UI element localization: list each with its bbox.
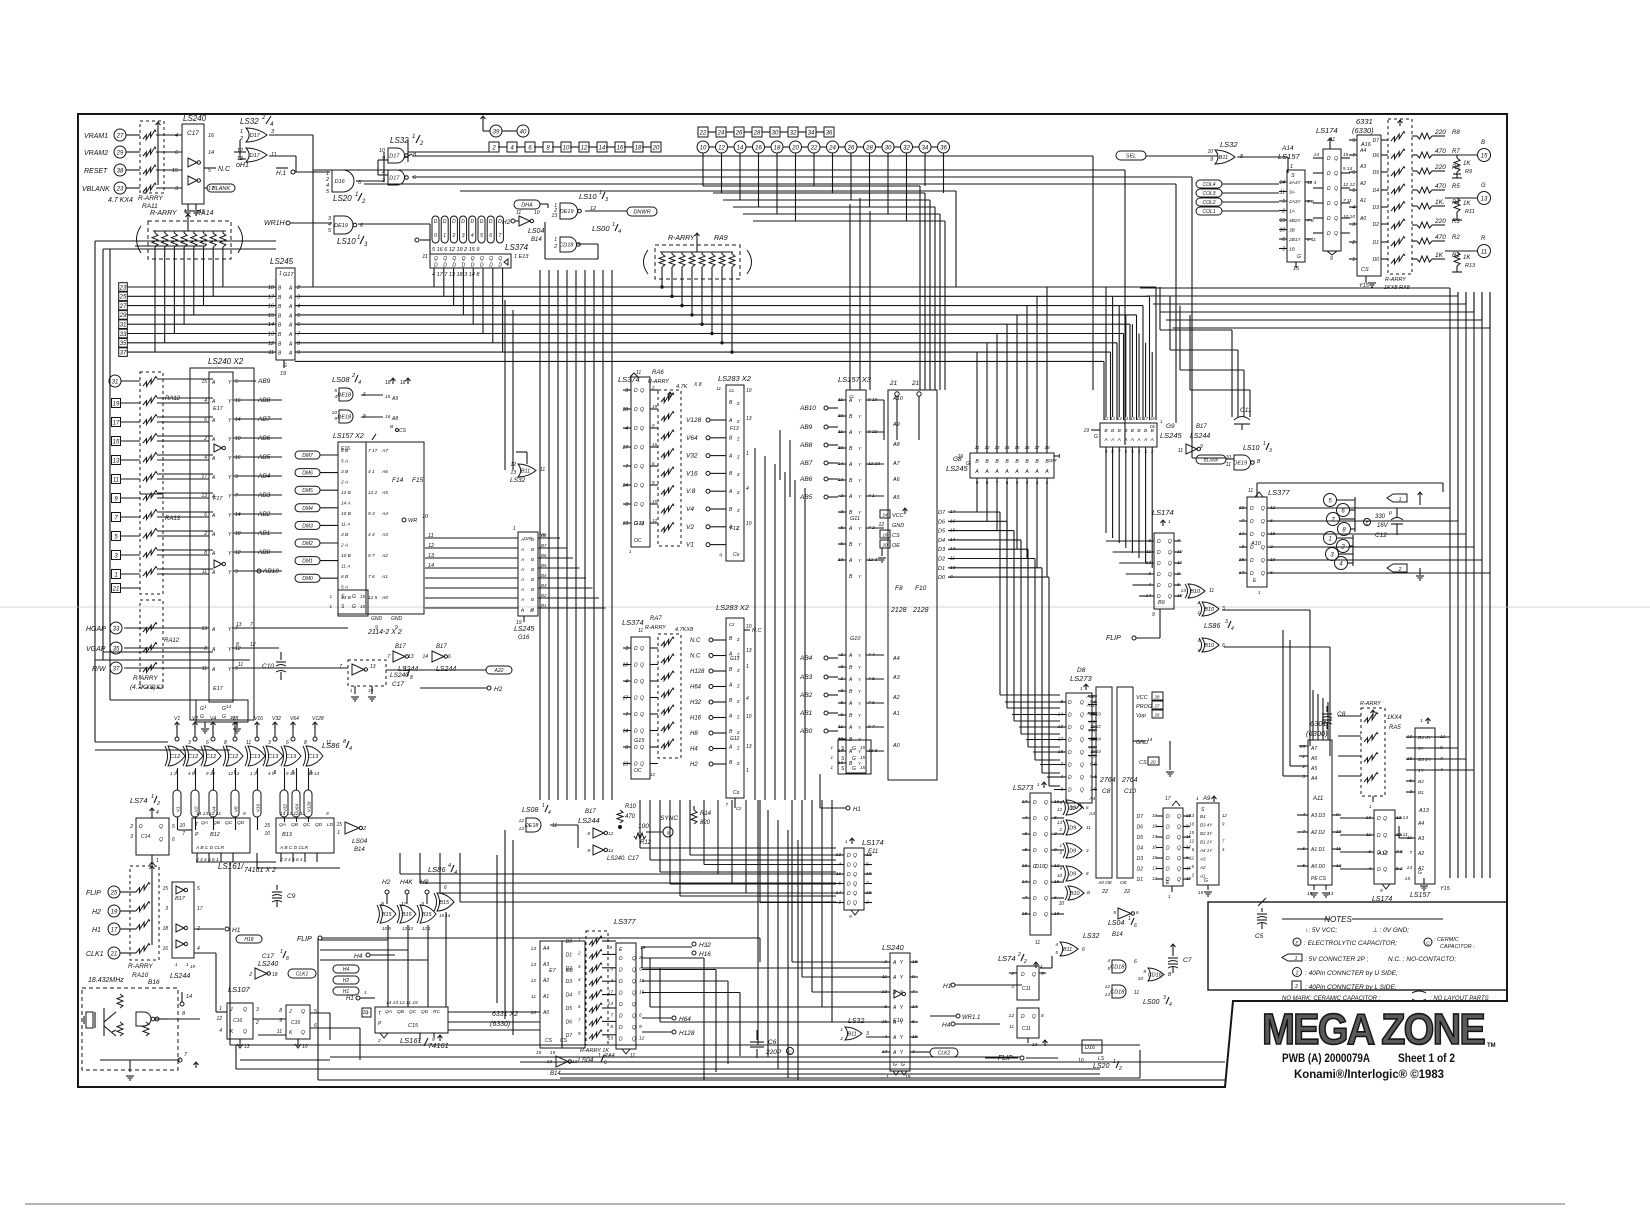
svg-text:A: A	[1024, 469, 1029, 475]
svg-text:8: 8	[610, 1024, 613, 1030]
svg-text:Σ: Σ	[736, 454, 740, 459]
wire 6301 tops	[1312, 690, 1314, 740]
svg-text:C: C	[1426, 941, 1430, 947]
svg-text:H4: H4	[354, 953, 363, 960]
svg-text:G: G	[1204, 878, 1208, 884]
wire G9 down	[1105, 456, 1107, 533]
svg-text:LS245: LS245	[514, 626, 534, 633]
svg-text:H2: H2	[494, 686, 503, 693]
svg-text:R9: R9	[1465, 169, 1472, 175]
svg-text:14 13 12 11: 14 13 12 11	[280, 811, 305, 817]
svg-text:V128: V128	[307, 801, 312, 812]
svg-text:Y: Y	[228, 456, 232, 462]
svg-text:12: 12	[250, 642, 256, 648]
svg-text:D: D	[139, 824, 143, 830]
svg-text:D: D	[1327, 186, 1331, 192]
svg-text:B: B	[278, 286, 282, 292]
svg-text:1K: 1K	[1463, 255, 1471, 261]
svg-text:CL: CL	[729, 388, 735, 393]
svg-text:B5: B5	[541, 563, 547, 568]
svg-text:A9: A9	[391, 396, 398, 402]
svg-text:D: D	[1166, 856, 1170, 862]
svg-text:9: 9	[1330, 256, 1333, 262]
svg-text:8: 8	[546, 145, 550, 151]
svg-text:Q: Q	[489, 256, 493, 262]
svg-text:11: 11	[540, 467, 545, 473]
svg-text:15: 15	[1198, 890, 1204, 896]
svg-text:A4: A4	[381, 511, 388, 517]
svg-text:14: 14	[1279, 180, 1285, 186]
wire b10 outputs right	[1222, 609, 1310, 611]
svg-text:D: D	[847, 853, 851, 859]
svg-text:Q: Q	[1080, 713, 1084, 719]
svg-text:A: A	[848, 398, 853, 404]
svg-text:13 B: 13 B	[341, 490, 352, 496]
svg-text:4: 4	[548, 810, 551, 816]
svg-text:2: 2	[1398, 567, 1402, 573]
gate LS04 E7 bottom	[556, 1056, 568, 1067]
svg-text:4: 4	[625, 426, 628, 432]
svg-text:R-ARRY: R-ARRY	[645, 625, 666, 631]
svg-text:DM7: DM7	[302, 453, 313, 459]
svg-text:B: B	[531, 587, 534, 592]
svg-text:FLIP: FLIP	[86, 890, 101, 897]
svg-text:19: 19	[1186, 876, 1191, 881]
svg-text:CS: CS	[545, 1038, 553, 1044]
svg-text:B8: B8	[541, 533, 547, 538]
gate LS32 1/2 D17 d	[388, 170, 405, 185]
svg-text:1: 1	[329, 604, 332, 609]
svg-text:Q: Q	[640, 646, 644, 652]
svg-text:7: 7	[625, 712, 628, 718]
svg-text:2: 2	[419, 141, 424, 147]
svg-text:7: 7	[725, 802, 728, 807]
svg-text:D: D	[619, 968, 623, 974]
svg-text:12: 12	[1057, 807, 1063, 812]
svg-text:D: D	[847, 901, 851, 907]
svg-text:5: 5	[1352, 188, 1355, 194]
wire mid verticals to bottom	[757, 800, 759, 1045]
wire G9 verticals up	[1105, 287, 1107, 417]
svg-text:7: 7	[182, 831, 185, 837]
svg-text:Q: Q	[1044, 912, 1048, 918]
svg-text:9: 9	[1054, 847, 1057, 853]
svg-text:14: 14	[235, 417, 241, 423]
svg-text:9: 9	[297, 350, 300, 356]
svg-text:D1: D1	[1373, 240, 1380, 246]
svg-text:35: 35	[120, 341, 127, 347]
svg-text:Σ: Σ	[736, 715, 740, 720]
svg-text:1A: 1A	[1289, 209, 1295, 215]
svg-text:1K: 1K	[1463, 201, 1471, 207]
svg-text:Y: Y	[858, 510, 862, 515]
svg-text:9: 9	[1222, 822, 1225, 827]
svg-text:3: 3	[235, 474, 238, 480]
svg-text:RA12: RA12	[164, 638, 180, 644]
svg-text:14: 14	[428, 563, 434, 569]
svg-text:Y: Y	[228, 570, 232, 576]
svg-text:10: 10	[746, 714, 752, 720]
svg-text:A: A	[892, 1005, 897, 1011]
svg-text:5: 5	[208, 168, 212, 174]
svg-text:A B C D CLR: A B C D CLR	[279, 845, 309, 851]
svg-text:B11: B11	[847, 1032, 856, 1038]
svg-text:V8: V8	[232, 716, 238, 722]
svg-text:20: 20	[1149, 760, 1156, 765]
svg-text:Y: Y	[858, 689, 862, 694]
svg-text:D: D	[634, 502, 638, 508]
IC counter B12	[192, 818, 250, 853]
svg-text:2 A: 2 A	[340, 543, 348, 549]
wire right verticals lower	[1449, 736, 1451, 738]
svg-text:D: D	[619, 979, 623, 985]
svg-text:31: 31	[112, 379, 119, 385]
svg-text:D: D	[1157, 561, 1161, 567]
capacitor C12 electrolytic	[1364, 519, 1371, 526]
svg-text:5: 5	[1055, 950, 1058, 956]
svg-text:Y: Y	[858, 414, 862, 419]
svg-text:15: 15	[385, 394, 391, 400]
svg-text:8: 8	[182, 1011, 186, 1017]
svg-text:1KX8 RA8: 1KX8 RA8	[1384, 285, 1411, 291]
net BLANK stadium right	[1196, 455, 1226, 464]
svg-text:R-ARRY: R-ARRY	[648, 379, 669, 385]
svg-text:B3 4Y: B3 4Y	[1200, 823, 1213, 828]
svg-text:5: 5	[328, 228, 332, 234]
svg-text:16: 16	[755, 145, 762, 151]
notes box	[1208, 902, 1507, 990]
svg-text:G13: G13	[730, 656, 740, 662]
svg-text:12: 12	[1009, 1013, 1015, 1019]
svg-text:1: 1	[1128, 916, 1131, 922]
svg-text:D: D	[619, 1014, 623, 1020]
resistor R9 1K	[1456, 155, 1458, 158]
svg-text:D17: D17	[389, 154, 400, 160]
wire e11 left inputs extra	[690, 854, 836, 856]
svg-text:OE: OE	[892, 543, 900, 549]
svg-text:A: A	[848, 725, 853, 731]
svg-text:11: 11	[246, 740, 251, 746]
svg-text:A2: A2	[892, 695, 900, 701]
connector square chain 22-36	[698, 127, 708, 137]
svg-text:G14: G14	[634, 521, 644, 527]
svg-text:Q: Q	[632, 968, 636, 974]
svg-text:A7: A7	[381, 448, 388, 454]
svg-text:B10: B10	[1190, 589, 1201, 595]
svg-text:LS161/: LS161/	[218, 862, 244, 871]
svg-text:19: 19	[280, 371, 286, 377]
svg-text:1: 1	[746, 664, 749, 670]
svg-text:Q: Q	[640, 762, 644, 768]
svg-text:LS00: LS00	[592, 224, 610, 233]
svg-text:1: 1	[840, 1027, 843, 1033]
svg-text:18: 18	[235, 436, 241, 442]
svg-text:B12: B12	[210, 832, 220, 838]
svg-text:D1: D1	[1137, 877, 1144, 883]
svg-text:3Y: 3Y	[1418, 746, 1425, 752]
svg-text:11: 11	[1086, 825, 1091, 830]
svg-text:G: G	[1094, 434, 1098, 440]
svg-text:H2: H2	[382, 879, 391, 886]
svg-text:Y: Y	[858, 446, 862, 451]
svg-text:6: 6	[1352, 170, 1355, 176]
svg-text:9: 9	[652, 480, 655, 485]
svg-text:5 16 6 12 19 2 15 9: 5 16 6 12 19 2 15 9	[432, 247, 479, 253]
svg-text:Q: Q	[632, 1037, 636, 1043]
svg-text:13: 13	[1189, 813, 1194, 818]
svg-text:2: 2	[577, 950, 581, 955]
svg-text:2128: 2128	[912, 607, 929, 614]
svg-text:COL4: COL4	[1202, 182, 1215, 188]
svg-text:18: 18	[774, 145, 781, 151]
svg-text:13: 13	[531, 946, 537, 952]
svg-text:2: 2	[839, 1036, 843, 1042]
svg-text:G: G	[901, 1062, 905, 1068]
svg-text:Y: Y	[900, 1035, 904, 1041]
svg-text:B: B	[849, 574, 853, 580]
svg-text:D: D	[1377, 867, 1381, 873]
svg-text:Q: Q	[632, 956, 636, 962]
svg-text:1: 1	[1258, 590, 1261, 595]
svg-text:B: B	[1087, 890, 1090, 895]
svg-text:GND: GND	[391, 616, 403, 622]
svg-text:C9: C9	[287, 893, 296, 900]
svg-text:Q: Q	[853, 872, 857, 878]
svg-text:19: 19	[368, 688, 374, 693]
svg-text:11 A: 11 A	[341, 564, 350, 570]
svg-text:Q: Q	[640, 712, 644, 718]
connector circle cluster 1-4	[1324, 532, 1337, 545]
svg-text:21: 21	[911, 380, 920, 387]
svg-text:15: 15	[360, 604, 366, 609]
svg-text:DE18: DE18	[525, 823, 540, 829]
svg-text:6: 6	[1082, 947, 1085, 953]
svg-text:A2: A2	[381, 553, 388, 559]
svg-text:A22: A22	[494, 668, 504, 674]
resistor array RA10	[130, 866, 159, 960]
svg-text:V1: V1	[174, 716, 180, 722]
svg-text:Σ: Σ	[736, 684, 740, 689]
svg-text:A1: A1	[892, 711, 900, 717]
svg-text:Cz: Cz	[729, 622, 735, 627]
svg-text:13: 13	[746, 648, 752, 654]
svg-text:H1: H1	[943, 983, 952, 990]
svg-text:D2: D2	[1137, 867, 1144, 873]
svg-text:R11: R11	[1465, 209, 1475, 215]
svg-text:5 13: 5 13	[1343, 166, 1353, 172]
svg-text:26: 26	[735, 130, 743, 136]
svg-text:A3: A3	[892, 675, 901, 681]
svg-text:B: B	[531, 567, 534, 572]
svg-text:Q: Q	[1334, 186, 1338, 192]
svg-text:QC: QC	[409, 1009, 417, 1015]
svg-text:Y: Y	[900, 1005, 904, 1011]
svg-text:Q: Q	[853, 891, 857, 897]
wire e10 left inputs extra	[642, 967, 890, 969]
svg-text:LS374: LS374	[505, 243, 529, 252]
svg-text:G: G	[1418, 870, 1422, 876]
svg-text:D: D	[1033, 832, 1037, 838]
svg-text:A: A	[892, 1035, 897, 1041]
svg-text:A: A	[288, 304, 293, 310]
svg-text:14: 14	[208, 150, 214, 156]
svg-text:LS32: LS32	[1220, 140, 1238, 149]
connector arrow 2	[1387, 564, 1407, 572]
svg-text:B: B	[729, 667, 733, 673]
svg-text:22: 22	[1101, 889, 1108, 895]
svg-text:A4: A4	[1359, 148, 1366, 154]
svg-text:P: P	[195, 832, 199, 838]
svg-text:A9: A9	[892, 422, 900, 428]
svg-text:CD18: CD18	[1148, 973, 1163, 979]
svg-text:2: 2	[1294, 984, 1298, 990]
svg-text:Vpp: Vpp	[1136, 713, 1146, 719]
node H1 e10	[951, 983, 955, 987]
svg-text:µ: µ	[1389, 510, 1392, 516]
svg-text:28: 28	[753, 130, 761, 136]
svg-text:Q: Q	[1168, 561, 1172, 567]
svg-text:A6: A6	[381, 469, 388, 475]
svg-text:13: 13	[608, 1036, 614, 1042]
svg-text:QD: QD	[421, 1009, 429, 1015]
svg-text:Y15: Y15	[1359, 283, 1370, 289]
svg-text:LD: LD	[327, 822, 334, 828]
svg-text:1: 1	[1168, 894, 1171, 899]
svg-text:Σ: Σ	[736, 730, 740, 735]
svg-text:14: 14	[186, 994, 192, 1000]
svg-text:A: A	[520, 557, 524, 562]
svg-text:Q: Q	[640, 696, 644, 702]
svg-text:14: 14	[1307, 891, 1313, 897]
svg-text:D: D	[1068, 700, 1072, 706]
svg-text:B3 2Y: B3 2Y	[1418, 757, 1432, 763]
svg-text:A5: A5	[892, 495, 901, 501]
svg-text:6 B: 6 B	[341, 574, 349, 580]
svg-text:D: D	[1021, 1014, 1025, 1020]
svg-text:13: 13	[408, 654, 414, 660]
svg-text:GND: GND	[371, 616, 383, 622]
wire long horizontal y191	[460, 190, 956, 192]
svg-text:A: A	[288, 332, 293, 338]
wire counters verticals	[196, 853, 198, 862]
svg-text:RA9: RA9	[714, 235, 728, 242]
svg-text:Σ: Σ	[736, 746, 740, 751]
svg-text:A2: A2	[1417, 851, 1424, 857]
svg-text:Q: Q	[443, 256, 447, 262]
svg-text:DM5: DM5	[302, 488, 313, 494]
wire E17 outputs right	[256, 399, 282, 401]
svg-text:D: D	[1166, 846, 1170, 852]
wire bus A main	[295, 286, 1156, 288]
svg-text:Y: Y	[900, 960, 904, 966]
wire ra5 links	[1338, 715, 1361, 717]
svg-text:Y: Y	[858, 558, 862, 563]
svg-text:1: 1	[219, 1006, 222, 1012]
wire 2114 to LS245 G16	[425, 537, 518, 539]
wire bottom rails extra	[255, 1044, 1140, 1046]
svg-text:A: A	[520, 547, 524, 552]
svg-text:A2 D2: A2 D2	[1310, 830, 1325, 836]
svg-text:5: 5	[172, 824, 175, 830]
svg-text:Y: Y	[228, 437, 232, 443]
svg-text:G17: G17	[283, 272, 294, 278]
svg-text:RA7: RA7	[650, 616, 662, 622]
svg-text:D: D	[1377, 816, 1381, 822]
svg-text:Q: Q	[1080, 788, 1084, 794]
svg-text:C13: C13	[268, 754, 279, 760]
svg-text:VGAP: VGAP	[86, 646, 106, 653]
svg-text:13: 13	[746, 744, 752, 750]
svg-text:9: 9	[1352, 138, 1355, 144]
svg-text:11: 11	[113, 477, 119, 483]
svg-text:29: 29	[119, 313, 127, 319]
svg-text:4: 4	[270, 122, 274, 128]
svg-text:A: A	[520, 587, 524, 592]
svg-text:D: D	[634, 729, 638, 735]
svg-text:12: 12	[1186, 845, 1191, 850]
connector circle 31	[109, 375, 121, 387]
svg-text:S: S	[1201, 807, 1205, 813]
svg-text:B14: B14	[1112, 932, 1123, 938]
svg-text:CS: CS	[1139, 760, 1147, 766]
svg-text:V64: V64	[290, 716, 299, 722]
svg-text:3: 3	[364, 242, 368, 248]
svg-text:6: 6	[1282, 237, 1285, 243]
svg-text:QA: QA	[279, 822, 286, 828]
wire C17 pin16 to OR gate	[135, 245, 204, 247]
svg-text:1B: 1B	[1289, 247, 1296, 253]
svg-text:A: A	[1034, 469, 1039, 475]
svg-text:3: 3	[1225, 619, 1228, 625]
svg-text:D1: D1	[938, 566, 945, 572]
svg-text:B16: B16	[148, 979, 160, 986]
IC LS157 Y13 A13	[1415, 728, 1435, 884]
svg-text:DE19: DE19	[334, 223, 348, 229]
svg-text:Y: Y	[228, 399, 232, 405]
svg-text:(4.7KX8)X2: (4.7KX8)X2	[130, 684, 164, 691]
svg-text:V32: V32	[686, 453, 698, 460]
svg-text:3: 3	[1011, 984, 1014, 990]
IC counter B13	[276, 818, 334, 853]
svg-text:V128: V128	[686, 417, 702, 424]
svg-text:11: 11	[238, 662, 243, 668]
svg-text:Σ: Σ	[736, 472, 740, 477]
svg-text:A13: A13	[1418, 808, 1430, 814]
svg-text:7: 7	[578, 1017, 581, 1022]
svg-text:Q: Q	[1168, 550, 1172, 556]
IC PROM E7 E8	[540, 941, 585, 1048]
svg-text:A0: A0	[892, 743, 901, 749]
svg-text:1: 1	[175, 962, 178, 967]
svg-text:13: 13	[531, 962, 537, 968]
svg-text:17: 17	[111, 927, 118, 933]
svg-text:Q: Q	[1080, 763, 1084, 769]
svg-text:Y: Y	[228, 475, 232, 481]
svg-text:5: 5	[235, 379, 238, 385]
svg-text:B: B	[985, 459, 989, 465]
svg-text:1 2: 1 2	[170, 771, 177, 776]
connector circle chain 10-36	[697, 141, 709, 153]
svg-text:4: 4	[197, 946, 200, 952]
svg-text:4 4: 4 4	[368, 532, 375, 538]
svg-text:A0 D0: A0 D0	[1310, 864, 1325, 870]
svg-text:4: 4	[618, 229, 621, 235]
svg-text:18: 18	[635, 145, 642, 151]
svg-text:D: D	[1250, 506, 1254, 512]
svg-text:A: A	[1004, 469, 1009, 475]
svg-text:9: 9	[1210, 157, 1213, 163]
svg-text:G: G	[893, 1062, 897, 1068]
